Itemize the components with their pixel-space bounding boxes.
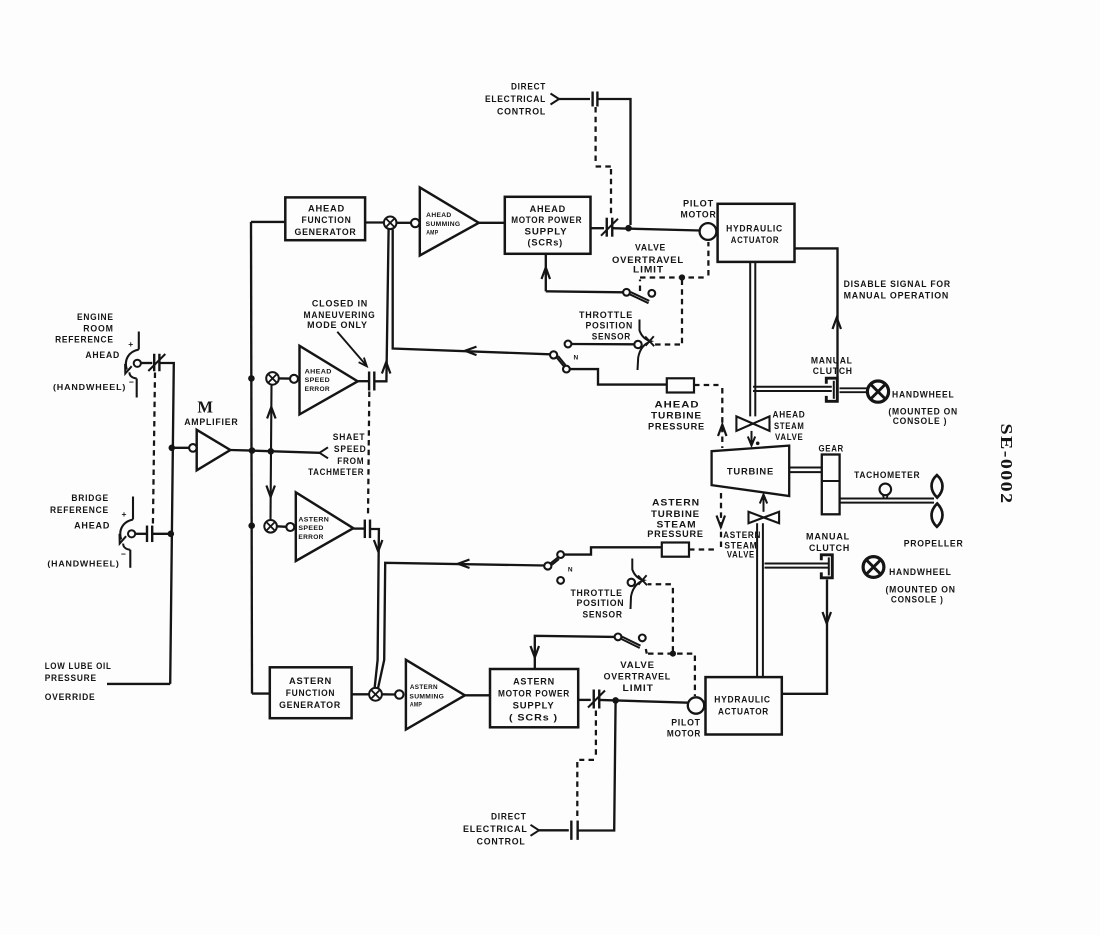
op-amp: AHEAD SUMMING AMP triangle — [420, 187, 479, 255]
svg-text:FUNCTION: FUNCTION — [286, 687, 336, 698]
op-amp: M AMPLIFIER triangle — [197, 430, 231, 471]
junction dot common bus at astern speed error row — [248, 522, 255, 529]
svg-text:AHEAD: AHEAD — [426, 213, 452, 219]
svg-text:DISABLE SIGNAL FOR: DISABLE SIGNAL FOR — [844, 279, 951, 289]
svg-text:N: N — [568, 567, 573, 574]
steam flow arrow into turbine (ahead) — [751, 431, 753, 444]
op-amp: AHEAD SPEED ERROR triangle — [300, 346, 358, 415]
svg-text:CLUTCH: CLUTCH — [813, 366, 853, 376]
wire: bridge capacitor to left bus — [152, 533, 171, 535]
svg-text:LIMIT: LIMIT — [633, 264, 664, 274]
wire: vertical from astern junction down to DEC — [578, 700, 616, 830]
svg-text:STEAM: STEAM — [774, 421, 805, 431]
svg-text:THROTTLE: THROTTLE — [579, 310, 633, 320]
svg-text:CONTROL: CONTROL — [477, 836, 526, 846]
svg-text:TURBINE: TURBINE — [651, 411, 702, 421]
wire: DEC input to capacitor — [559, 98, 590, 100]
svg-text:SENSOR: SENSOR — [592, 331, 631, 341]
wire: AFG astern output to summing junction — [352, 693, 370, 695]
svg-text:REFERENCE: REFERENCE — [55, 334, 114, 344]
box: AHEAD FUNCTION GENERATOR — [285, 197, 365, 240]
svg-text:ELECTRICAL: ELECTRICAL — [485, 94, 546, 104]
switch contact circle (overtravel astern, NO) — [639, 635, 646, 642]
svg-text:MANUAL: MANUAL — [806, 532, 850, 542]
selector fixed contact to sensor (astern) — [557, 577, 564, 584]
svg-text:MOTOR POWER: MOTOR POWER — [498, 688, 570, 699]
box: ASTERN FUNCTION GENERATOR — [270, 667, 352, 718]
tachometer stem — [883, 495, 884, 499]
junction dot tach line — [268, 448, 275, 455]
wire: power supply output — [591, 227, 605, 229]
selector arm (ahead) — [557, 357, 564, 366]
dashed link: junction up to pilot motor — [707, 242, 709, 276]
handwheel potentiometer (engine room): bottom hook and stem — [130, 372, 137, 378]
svg-text:HYDRAULIC: HYDRAULIC — [714, 694, 770, 705]
wire: ahead speed error output to contact — [358, 380, 369, 382]
throttle position sensor wiper circle (astern) — [628, 579, 635, 586]
svg-text:AHEAD: AHEAD — [305, 369, 332, 376]
svg-text:LIMIT: LIMIT — [623, 683, 654, 693]
svg-text:FROM: FROM — [337, 456, 364, 466]
svg-text:AHEAD: AHEAD — [530, 203, 566, 214]
contact (slashed capacitor) at ahead power supply output — [601, 218, 618, 237]
contact (capacitor) at astern speed error output — [365, 520, 370, 539]
switch contact circle (overtravel ahead, NO) — [648, 290, 655, 297]
wiper tap circle (engine room) — [134, 360, 141, 367]
handwheel potentiometer (engine room): wiper arc — [126, 350, 139, 370]
svg-text:MOTOR POWER: MOTOR POWER — [511, 214, 582, 225]
wire: contact to pilot motor — [612, 228, 700, 230]
wire: speed error cap to summing junction vertical (ahead) — [375, 230, 389, 382]
wire: astern power supply output — [578, 699, 591, 701]
svg-text:POSITION: POSITION — [577, 598, 625, 608]
dashed: astern pressure sensor to turbine — [689, 548, 716, 550]
selector fixed contact to pressure (ahead) — [563, 366, 570, 373]
svg-text:PRESSURE: PRESSURE — [647, 529, 704, 539]
wire: engine room tap to contact — [141, 362, 152, 364]
wire: to overtravel switch — [546, 291, 623, 292]
svg-text:AHEAD: AHEAD — [74, 520, 110, 530]
wire: clutch to astern hydraulic actuator (disable link) — [782, 580, 827, 694]
svg-text:STEAM: STEAM — [657, 520, 697, 530]
svg-text:MOTOR: MOTOR — [667, 728, 701, 738]
junction dot on astern power line — [612, 697, 619, 704]
svg-text:SENSOR: SENSOR — [583, 609, 623, 619]
selector arm (astern) — [551, 558, 558, 564]
pilot motor (astern) circle — [688, 697, 704, 713]
junction dot bridge joins left bus — [168, 531, 175, 538]
svg-text:TURBINE: TURBINE — [651, 509, 700, 519]
dashed link: junction up to astern sensor wiper — [672, 584, 674, 651]
shaft: astern valve stem to manual clutch (double line) — [765, 563, 830, 565]
wire: hydraulic actuator to clutch (disable link, ahead) — [795, 248, 838, 377]
svg-text:ELECTRICAL: ELECTRICAL — [463, 824, 528, 834]
wire: selector to astern turbine pressure sensor — [564, 547, 662, 554]
box: HYDRAULIC ACTUATOR (ahead) — [718, 204, 795, 262]
wire: dashed from DEC capacitor down with jog — [594, 107, 596, 163]
svg-text:SUPPLY: SUPPLY — [525, 225, 568, 236]
box: HYDRAULIC ACTUATOR (astern) — [706, 677, 782, 734]
summing junction (astern function generator output) — [369, 688, 382, 701]
svg-text:ENGINE: ENGINE — [77, 312, 114, 322]
svg-text:PROPELLER: PROPELLER — [904, 539, 964, 549]
dashed from astern power contact to DEC capacitor — [595, 711, 597, 757]
contact (slashed capacitor) at astern power supply output — [588, 690, 605, 709]
op-amp: ASTERN SPEED ERROR triangle — [296, 492, 354, 561]
wire: astern speed error output to contact — [353, 527, 364, 529]
wire: summing junction to summing amp input circle — [397, 222, 412, 224]
dashed: pressure sensor to turbine inlet — [694, 384, 719, 386]
wire: junction to ahead speed error amp — [279, 377, 290, 380]
svg-text:VALVE: VALVE — [727, 550, 755, 560]
contact (slashed capacitor) engine room — [148, 354, 165, 372]
capacitor contact (bridge) — [147, 526, 152, 543]
box: GEAR — [822, 455, 840, 515]
manual clutch jaw (ahead) — [826, 378, 837, 401]
svg-text:PILOT: PILOT — [671, 717, 701, 727]
shaft: turbine to gear (double line) — [789, 467, 822, 469]
svg-text:(MOUNTED ON: (MOUNTED ON — [888, 406, 958, 416]
svg-text:CLUTCH: CLUTCH — [809, 543, 850, 553]
wire: feedback long horizontal (ahead) with left arrow — [393, 230, 551, 355]
svg-text:GEAR: GEAR — [819, 444, 844, 454]
wire: amp output row to shaft speed input — [252, 451, 320, 453]
wire: summing amp output to power supply — [479, 222, 505, 224]
svg-text:−: − — [129, 377, 134, 387]
svg-text:FUNCTION: FUNCTION — [302, 214, 352, 225]
dashed link: maneuvering contacts ahead-astern — [368, 392, 369, 518]
svg-text:(HANDWHEEL): (HANDWHEEL) — [53, 382, 126, 392]
handwheel potentiometer (engine room): top stem — [138, 332, 140, 350]
svg-text:CLOSED IN: CLOSED IN — [312, 299, 368, 309]
wiper tap circle (bridge) — [128, 530, 135, 537]
svg-text:M: M — [197, 398, 213, 417]
tachometer circle — [880, 484, 892, 496]
svg-text:AHEAD: AHEAD — [85, 350, 120, 360]
wire: feedback long horizontal (astern) with left arrow — [378, 563, 544, 688]
svg-text:(MOUNTED ON: (MOUNTED ON — [886, 585, 956, 595]
junction dot on dashed overtravel net — [679, 274, 685, 280]
dashed link: engine room contact to bridge contact — [153, 373, 155, 526]
svg-text:MANUAL: MANUAL — [811, 356, 853, 366]
throttle position sensor wiper circle (ahead) — [634, 341, 641, 348]
wire: M amp output to common bus — [230, 449, 252, 452]
handwheel potentiometer (bridge): top stem — [132, 497, 134, 520]
svg-text:SPEED: SPEED — [334, 444, 367, 454]
shaft: clutch to handwheel (ahead) — [840, 387, 867, 389]
gear internal divider — [822, 480, 840, 482]
dashed link: junction down to astern pilot motor — [694, 656, 696, 697]
switch contact circle (overtravel astern, common) — [615, 634, 622, 641]
svg-text:OVERTRAVEL: OVERTRAVEL — [604, 672, 671, 682]
svg-text:MODE ONLY: MODE ONLY — [307, 320, 368, 330]
junction dot on astern dashed net — [670, 651, 676, 657]
svg-text:LOW LUBE OIL: LOW LUBE OIL — [45, 661, 112, 671]
handwheel symbol (astern): crossed circle — [863, 557, 884, 578]
svg-text:CONTROL: CONTROL — [497, 107, 546, 117]
svg-text:SUMMING: SUMMING — [426, 222, 461, 228]
input circle astern summing amp — [395, 690, 403, 698]
svg-text:TACHMETER: TACHMETER — [308, 467, 364, 477]
box: AHEAD MOTOR POWER SUPPLY (SCRs) — [505, 197, 591, 254]
svg-text:ASTERN: ASTERN — [298, 516, 329, 523]
svg-text:+: + — [128, 339, 133, 349]
svg-text:REFERENCE: REFERENCE — [50, 505, 109, 515]
feedback selector moving contact (astern) — [544, 562, 551, 569]
input circle of M amplifier — [189, 444, 197, 452]
svg-text:ACTUATOR: ACTUATOR — [731, 234, 779, 245]
svg-text:−: − — [121, 549, 126, 559]
selector fixed contact to pressure (astern) — [557, 551, 564, 558]
svg-text:POSITION: POSITION — [586, 320, 634, 330]
summing junction (astern speed error) — [264, 520, 277, 533]
svg-text:SPEED: SPEED — [298, 525, 323, 532]
junction dot common bus at ahead speed error row — [248, 375, 255, 382]
svg-text:( SCRs ): ( SCRs ) — [509, 712, 558, 723]
svg-text:ACTUATOR: ACTUATOR — [718, 706, 769, 717]
svg-text:AMPLIFIER: AMPLIFIER — [184, 417, 238, 427]
wire: astern speed error cap line down to summing junction — [371, 529, 379, 688]
svg-text:ASTERN: ASTERN — [723, 530, 761, 540]
valve: ASTERN STEAM VALVE bowtie — [749, 512, 764, 523]
propeller blades — [932, 475, 943, 498]
wire: tach feedback vertical with arrows — [271, 385, 272, 520]
wire: power supply bottom feed with up arrow — [545, 254, 547, 291]
svg-text:AMP: AMP — [410, 703, 422, 709]
steam flow arrow into turbine (astern) — [763, 496, 765, 512]
handwheel symbol (ahead): crossed circle — [867, 381, 888, 402]
throttle position sensor bracket (ahead) — [638, 320, 651, 371]
svg-text:MANUAL OPERATION: MANUAL OPERATION — [844, 291, 950, 301]
valve: AHEAD STEAM VALVE bowtie — [736, 416, 753, 431]
junction dot common bus at amplifier output — [249, 447, 256, 454]
capacitor C-dec-astern — [571, 821, 577, 840]
pointer line from CLOSED IN label to contact — [337, 332, 365, 365]
throttle position sensor bracket (astern) — [631, 559, 644, 610]
handwheel potentiometer (bridge): bottom hook and stem — [123, 544, 130, 550]
svg-text:PRESSURE: PRESSURE — [648, 421, 705, 431]
wire: contact to left bus corner — [159, 363, 173, 684]
wire: AFG output to summing junction — [365, 221, 384, 223]
svg-text:GENERATOR: GENERATOR — [295, 226, 357, 237]
capacitor C-dec-ahead — [593, 92, 598, 107]
wire: capacitor to corner then down to junction — [598, 99, 631, 225]
wire: common vertical to AFG input — [251, 221, 285, 223]
pilot motor (ahead) circle — [700, 223, 717, 240]
junction dot on ahead power line — [625, 225, 632, 232]
op-amp: ASTERN SUMMING AMP triangle — [406, 660, 465, 730]
handwheel potentiometer (bridge): wiper arc — [120, 520, 133, 540]
svg-text:TURBINE: TURBINE — [727, 465, 774, 476]
selector fixed contact to sensor (ahead) — [565, 341, 572, 348]
svg-text:(HANDWHEEL): (HANDWHEEL) — [47, 558, 119, 568]
svg-text:N: N — [574, 355, 579, 362]
turbine body — [712, 446, 790, 496]
input circle of ahead summing amp — [411, 219, 419, 227]
svg-text:ASTERN: ASTERN — [289, 675, 332, 686]
wire: junction to astern summing amp — [382, 693, 396, 696]
wire: common bus to astern function generator — [252, 692, 270, 694]
shaft: hydraulic actuator (ahead) to steam valve (double line) — [749, 262, 751, 417]
svg-text:TACHOMETER: TACHOMETER — [854, 470, 920, 480]
wire: junction to astern speed error amp — [277, 525, 287, 528]
svg-text:GENERATOR: GENERATOR — [279, 699, 341, 710]
dashed link: astern overtravel switch to junction — [646, 649, 647, 654]
svg-text:ASTERN: ASTERN — [513, 676, 555, 687]
wire: astern power supply top feed with down arrow — [535, 636, 615, 669]
wire: selector to ahead turbine pressure sensor — [570, 369, 667, 385]
dashed link: junction down to throttle sensor wiper — [681, 280, 683, 345]
box: ASTERN MOTOR POWER SUPPLY (SCRs) — [490, 669, 578, 727]
tiny dot near ahead steam arrow — [756, 442, 760, 446]
resistor: AHEAD TURBINE PRESSURE sensor — [667, 378, 694, 392]
shaft: gear to propeller (double line) — [840, 498, 934, 500]
junction dot: left bus to M amplifier — [169, 445, 176, 452]
svg-text:PILOT: PILOT — [683, 199, 714, 209]
svg-text:SHAET: SHAET — [333, 432, 366, 442]
contact (capacitor) at ahead speed error output — [369, 372, 374, 391]
shaft speed input connector — [320, 447, 329, 458]
x mark at sensor wiper (ahead) — [645, 337, 654, 347]
manual clutch jaw (astern) — [821, 555, 832, 578]
switch arm (overtravel ahead) — [630, 294, 649, 303]
svg-text:VALVE: VALVE — [635, 243, 666, 253]
input circle astern speed error — [286, 523, 294, 531]
node: direct electrical control input connector — [551, 94, 560, 105]
shaft: valve stem to manual clutch (ahead, double line) — [753, 386, 832, 388]
svg-text:MANEUVERING: MANEUVERING — [304, 310, 376, 320]
wire: left bus to M amp input — [172, 447, 190, 449]
svg-text:OVERRIDE: OVERRIDE — [45, 692, 96, 702]
switch arm (overtravel astern) — [621, 639, 640, 648]
wire: DEC astern input to capacitor — [539, 829, 569, 831]
svg-text:VALVE: VALVE — [775, 432, 804, 442]
svg-text:(SCRs): (SCRs) — [528, 236, 564, 247]
svg-text:THROTTLE: THROTTLE — [571, 588, 623, 598]
svg-text:HANDWHEEL: HANDWHEEL — [892, 389, 955, 399]
svg-text:PRESSURE: PRESSURE — [45, 673, 97, 683]
svg-text:CONSOLE ): CONSOLE ) — [893, 416, 948, 426]
resistor: ASTERN TURBINE STEAM PRESSURE sensor — [662, 543, 689, 557]
dashed link: overtravel switch to junction — [639, 280, 641, 292]
svg-text:AMP: AMP — [426, 230, 438, 236]
wire: sensor contact to wiper circle — [572, 343, 635, 346]
svg-text:AHEAD: AHEAD — [773, 410, 806, 420]
svg-text:ASTERN: ASTERN — [410, 685, 438, 691]
summing junction (ahead function generator output) — [384, 217, 397, 230]
x mark at sensor wiper (astern) — [638, 576, 647, 586]
svg-text:+: + — [122, 509, 127, 519]
wire: common bus vertical — [251, 222, 252, 694]
switch contact circle (overtravel ahead, common) — [623, 289, 630, 296]
wire: astern summing amp to power supply — [465, 694, 490, 696]
astern direct electrical control input connector — [531, 825, 540, 836]
svg-text:DIRECT: DIRECT — [511, 82, 546, 92]
input circle ahead speed error — [290, 375, 298, 383]
svg-text:ROOM: ROOM — [83, 323, 113, 333]
svg-text:SE-0002: SE-0002 — [997, 424, 1016, 505]
wire: bridge tap to capacitor — [135, 533, 146, 535]
svg-text:SPEED: SPEED — [305, 377, 330, 384]
svg-text:ERROR: ERROR — [305, 386, 330, 393]
svg-text:SUMMING: SUMMING — [409, 694, 444, 700]
svg-text:SUPPLY: SUPPLY — [513, 700, 555, 711]
svg-text:BRIDGE: BRIDGE — [71, 493, 109, 503]
summing junction (ahead speed error) — [266, 372, 279, 385]
feedback selector moving contact (ahead) — [550, 351, 557, 358]
svg-text:ASTERN: ASTERN — [652, 498, 700, 508]
svg-text:HANDWHEEL: HANDWHEEL — [889, 567, 952, 577]
svg-text:AHEAD: AHEAD — [308, 203, 345, 214]
svg-text:AHEAD: AHEAD — [655, 399, 700, 409]
svg-text:CONSOLE ): CONSOLE ) — [891, 595, 944, 605]
svg-text:VALVE: VALVE — [620, 660, 655, 670]
svg-text:MOTOR: MOTOR — [681, 210, 717, 220]
svg-text:HYDRAULIC: HYDRAULIC — [726, 223, 783, 234]
wire: contact to astern pilot motor — [599, 700, 688, 703]
svg-text:DIRECT: DIRECT — [491, 812, 527, 822]
shaft: astern steam valve stem (double line) — [756, 523, 758, 677]
wire: low lube oil override line — [107, 683, 170, 685]
svg-text:ERROR: ERROR — [298, 534, 323, 541]
